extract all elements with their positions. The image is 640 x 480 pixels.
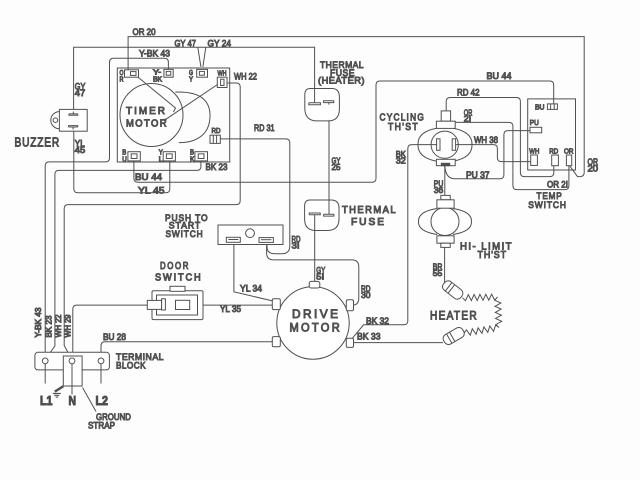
heater connector (upper) (441, 279, 465, 301)
svg-text:U: U (122, 156, 127, 163)
door switch contact block (176, 300, 190, 309)
label BK 23 (bottom, rotated) (44, 315, 53, 338)
wire BU 28 (101, 342, 277, 358)
drive motor circle (277, 287, 349, 359)
svg-text:DRIVE: DRIVE (292, 307, 341, 321)
label BK 32 (motor) (366, 316, 389, 326)
svg-text:BU: BU (535, 102, 545, 111)
label WH 38 (474, 135, 498, 145)
svg-text:Y-BK 43: Y-BK 43 (34, 307, 43, 338)
label Y-BK 43 (top) (139, 49, 170, 59)
wire BU 44 (134, 81, 554, 182)
svg-text:K: K (190, 156, 195, 163)
svg-text:45: 45 (75, 145, 86, 155)
svg-text:SWITCH: SWITCH (166, 229, 204, 240)
svg-text:YL 45: YL 45 (138, 186, 165, 196)
cycling thermostat wings (418, 128, 472, 161)
wire GY 47 / GY 24 (74, 47, 315, 110)
label BK 23 (timer) (206, 162, 228, 172)
cycling thermostat contacts (431, 139, 458, 151)
wire WH 29 / YL 35 (door switch run) (73, 305, 277, 358)
svg-text:RD 42: RD 42 (457, 87, 480, 97)
label BU 28 (103, 332, 126, 342)
svg-text:DOOR: DOOR (160, 261, 190, 272)
wire RD 42 (446, 98, 554, 177)
drive motor terminal (right lower, BK 32/33) (346, 338, 353, 347)
svg-text:BK 23: BK 23 (206, 162, 228, 172)
svg-text:BLOCK: BLOCK (116, 360, 146, 371)
label WH 22 (timer) (234, 71, 257, 81)
svg-text:BK 32: BK 32 (366, 316, 389, 326)
label BU 44 (temp switch) (487, 71, 512, 81)
label BUZZER (15, 136, 61, 150)
svg-text:20: 20 (588, 164, 599, 174)
label L1 (40, 394, 53, 408)
svg-text:BU 28: BU 28 (103, 332, 126, 342)
svg-text:TIMER: TIMER (126, 106, 167, 117)
wire RD 31 (221, 139, 290, 254)
svg-text:STRAP: STRAP (88, 421, 115, 432)
svg-text:2I: 2I (464, 113, 472, 123)
wire WH 38 (458, 145, 531, 162)
label THERMAL FUSE (HEATER) (318, 60, 365, 87)
label GY 5I (2-line) (316, 265, 325, 282)
hi-limit thermostat circle (431, 208, 459, 236)
heater connector (lower) (441, 326, 465, 346)
svg-text:WH 22: WH 22 (234, 71, 257, 81)
svg-text:25: 25 (332, 162, 341, 172)
timer contact diagonal 2 (164, 85, 217, 121)
label OR 20 (right, 2-line) (588, 157, 599, 174)
svg-text:OR 2I: OR 2I (547, 179, 568, 189)
label OR 2I (cycling, 2-line) (464, 107, 473, 123)
label HI-LIMIT TH ST (460, 241, 513, 260)
label CYCLING TH ST (380, 112, 426, 133)
label YL 45 (timer) (138, 186, 165, 196)
label BU 44 (timer) (135, 172, 162, 182)
svg-text:BU 44: BU 44 (487, 71, 512, 81)
svg-text:SWITCH: SWITCH (528, 200, 567, 211)
wire L1 stub (44, 364, 46, 384)
label PUSH TO START SWITCH (165, 213, 209, 240)
door switch inner frame (157, 295, 198, 315)
ground strap pointer (83, 388, 97, 412)
label HEATER (430, 311, 478, 323)
svg-text:Y-BK 43: Y-BK 43 (139, 49, 170, 59)
label GY 25 (2-line) (332, 155, 341, 172)
thermal fuse (heater) body (305, 89, 340, 121)
label N (69, 394, 77, 408)
svg-text:R: R (120, 77, 124, 84)
timer contact diagonal 1 (136, 76, 176, 113)
wire BK 32 (352, 145, 432, 339)
temp switch box (528, 99, 576, 170)
label TERMINAL BLOCK (116, 352, 164, 372)
wire GY 5I (314, 216, 316, 283)
temp switch terminal RD (549, 147, 558, 166)
svg-text:L: L (159, 156, 163, 163)
wire Y-BK 43 (45, 58, 168, 358)
timer terminal WH (217, 71, 227, 88)
svg-text:47: 47 (75, 88, 86, 98)
drive motor terminal (left lower, BU 28) (272, 337, 280, 347)
svg-text:OR: OR (564, 147, 574, 156)
timer terminal G-Y (189, 69, 208, 83)
label BK 32 (cycling, 2-line) (396, 149, 406, 166)
label YL 45 (buzzer, 2-line) (75, 138, 86, 155)
wire GY 25 (328, 105, 330, 214)
label OR 2I (temp switch) (547, 179, 568, 189)
drive motor terminal (top, GY 5I) (309, 281, 320, 288)
svg-text:BK 23: BK 23 (44, 315, 53, 338)
svg-text:Y: Y (159, 149, 163, 156)
svg-text:RD: RD (549, 147, 558, 156)
label L2 (96, 394, 109, 408)
thermal fuse body (305, 200, 339, 231)
cycling thermostat circle (431, 131, 458, 158)
svg-text:SWITCH: SWITCH (155, 273, 203, 284)
wire N stub (71, 364, 73, 395)
temp switch terminal BU (535, 102, 557, 111)
svg-text:WH: WH (529, 147, 539, 156)
wire PU 37 (445, 131, 530, 179)
svg-text:B: B (122, 149, 126, 156)
terminal block body (35, 352, 110, 370)
wire OR 20 (128, 37, 584, 177)
label OR 20 (top) (133, 27, 156, 37)
svg-text:PU: PU (530, 118, 539, 127)
wire PU 36 (444, 166, 446, 196)
label Y-BK 43 (bottom, rotated) (34, 307, 43, 338)
svg-text:WH 22: WH 22 (54, 314, 63, 338)
door switch left plug (147, 299, 165, 310)
terminal block post N (69, 358, 75, 364)
timer terminal OR (pin R) (120, 70, 139, 84)
svg-text:L1: L1 (40, 394, 53, 408)
label TIMER MOTOR (126, 106, 168, 130)
label DOOR SWITCH (155, 261, 203, 284)
label PU 37 (466, 170, 490, 180)
door switch outer body (152, 291, 203, 320)
svg-text:L2: L2 (96, 394, 109, 408)
svg-text:HEATER: HEATER (430, 311, 478, 323)
label THERMAL FUSE (342, 205, 397, 228)
label GY 47 (buzzer, 2-line) (75, 81, 86, 98)
svg-text:55: 55 (433, 268, 443, 278)
terminal block post L2 (98, 358, 104, 364)
thermal fuse (heater) terminal bars (309, 89, 334, 105)
label GY 24 (208, 38, 232, 48)
label BK 33 (357, 331, 381, 341)
hi-limit thermostat bottom terminal (437, 236, 454, 248)
svg-text:Y-: Y- (153, 70, 162, 77)
svg-text:THERMAL: THERMAL (342, 205, 397, 216)
wire RD 30 (267, 242, 359, 305)
push-to-start pilot circle (246, 229, 255, 238)
push-to-start switch box (218, 225, 283, 245)
temp switch terminal WH (529, 147, 539, 166)
label GROUND STRAP (88, 412, 131, 432)
ground symbol (53, 386, 63, 397)
svg-text:RD: RD (212, 128, 221, 135)
label BR 55 (2-line) (433, 261, 443, 278)
timer terminal BK (190, 149, 208, 163)
cycling thermostat top terminal (436, 111, 455, 128)
ground strap box (63, 356, 82, 386)
timer terminal YL (159, 149, 176, 163)
timer motor box (117, 68, 229, 162)
svg-text:3I: 3I (292, 241, 300, 251)
svg-text:RD 31: RD 31 (254, 123, 275, 133)
label PU 36 (2-line) (434, 178, 444, 195)
label GY 47 (top) (175, 38, 197, 48)
svg-text:TH'ST: TH'ST (478, 250, 508, 261)
svg-text:YL 35: YL 35 (220, 304, 241, 314)
thermal fuse terminal bars (309, 200, 334, 231)
terminal block post L1 (42, 358, 48, 364)
cycling thermostat bottom terminal (436, 159, 455, 166)
drive motor terminal (right upper, RD 30) (346, 300, 353, 311)
svg-text:OR 20: OR 20 (133, 27, 156, 37)
label YL 35 (220, 304, 241, 314)
timer terminal Y-BK (153, 69, 173, 83)
svg-text:(HEATER): (HEATER) (318, 76, 365, 87)
timer terminal RD (210, 128, 221, 143)
temp switch terminal PU (530, 118, 542, 133)
svg-text:PU 37: PU 37 (466, 170, 490, 180)
temp switch terminal OR (564, 147, 574, 166)
wire WH 22 (64, 83, 240, 357)
svg-text:GY 47: GY 47 (175, 38, 197, 48)
svg-text:FUSE: FUSE (351, 217, 386, 228)
svg-text:N: N (69, 394, 77, 408)
push-to-start terminal (right) (259, 238, 273, 243)
buzzer body (51, 109, 87, 131)
hi-limit thermostat wings (418, 209, 471, 235)
svg-text:GY 24: GY 24 (208, 38, 232, 48)
drive motor terminal (left upper, YL 34/35) (272, 299, 280, 310)
push-to-start terminal (left) (226, 237, 240, 242)
heater element zigzag (463, 294, 502, 335)
label WH 22 (bottom, rotated) (54, 314, 63, 338)
label YL 34 (240, 283, 262, 293)
wire BK 23 (47, 161, 201, 357)
wire YL 34 (234, 242, 273, 301)
svg-text:MOTOR: MOTOR (290, 321, 343, 335)
svg-text:WH 38: WH 38 (474, 135, 498, 145)
door switch top tab (170, 286, 185, 291)
svg-text:BK 33: BK 33 (357, 331, 381, 341)
label RD 30 (2-line) (361, 283, 371, 300)
timer motor coil circle (120, 84, 183, 147)
wire BK 33 (354, 342, 444, 344)
label WH 29 (bottom, rotated) (64, 314, 73, 338)
svg-text:MOTOR: MOTOR (126, 119, 168, 130)
svg-text:BU 44: BU 44 (135, 172, 162, 182)
svg-text:YL 34: YL 34 (240, 283, 262, 293)
label TEMP SWITCH (528, 191, 567, 211)
label RD 31 (vertical run, 2-line) (292, 234, 301, 251)
svg-text:32: 32 (396, 155, 406, 165)
svg-text:36: 36 (434, 185, 444, 195)
svg-text:BK: BK (153, 77, 162, 84)
svg-text:TH'ST: TH'ST (388, 122, 419, 133)
wire OR 2I (455, 122, 569, 189)
svg-text:B: B (190, 149, 194, 156)
hi-limit thermostat top terminal (437, 195, 454, 208)
wire BR 55 (444, 247, 446, 284)
svg-text:30: 30 (361, 290, 371, 300)
wire YL 45 (74, 130, 170, 193)
label RD 31 (horizontal) (254, 123, 275, 133)
timer terminal BU (122, 149, 140, 163)
label DRIVE MOTOR (290, 307, 343, 335)
wire L2 stub (100, 364, 102, 384)
svg-text:WH: WH (218, 71, 227, 78)
svg-text:WH 29: WH 29 (64, 314, 73, 338)
svg-text:5I: 5I (316, 271, 324, 281)
svg-text:BUZZER: BUZZER (15, 136, 61, 150)
timer cam lobe (175, 92, 210, 143)
label RD 42 (457, 87, 480, 97)
svg-text:Y: Y (189, 77, 193, 84)
